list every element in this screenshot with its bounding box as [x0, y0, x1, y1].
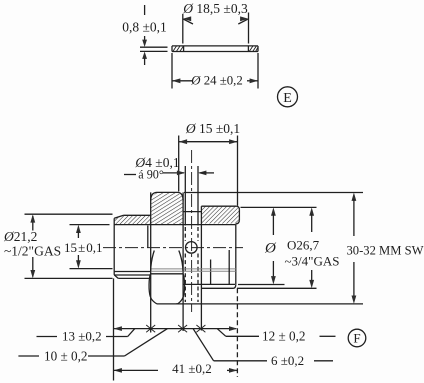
- left thread hatch band: [114, 216, 150, 225]
- body bottom-left chamfer: [114, 275, 118, 279]
- left bottom extension line: [113, 278, 115, 380]
- label 10 dash: [18, 355, 39, 357]
- hidden bore lines: [151, 269, 236, 271]
- hex boss top edge: [157, 191, 179, 193]
- svg-text:30-32 MM SW: 30-32 MM SW: [347, 244, 424, 258]
- svg-text:~1/2"GAS: ~1/2"GAS: [4, 244, 61, 259]
- washer thickness extension lines: [140, 47, 168, 51]
- washer dim 0,8 top stub: [144, 5, 146, 15]
- dim Ø vertical line: [271, 207, 276, 284]
- right thread lower chamfer: [236, 220, 240, 224]
- right thread top chamfer: [236, 206, 239, 209]
- washer right hatch: [249, 46, 258, 52]
- cross hole edge lines: [185, 166, 198, 226]
- hex belly right edge: [178, 274, 185, 304]
- left thread bottom edge: [118, 277, 151, 279]
- label 10 leader: [88, 329, 168, 356]
- hex throat curve left: [151, 251, 155, 272]
- neck top edge: [183, 211, 201, 213]
- root bottom extension line: [238, 284, 285, 286]
- right end face: [235, 224, 237, 284]
- hex boss corner arcs: [151, 192, 183, 200]
- dim 15 extension bottom: [70, 268, 113, 270]
- body left face: [113, 218, 115, 275]
- label 6 leader: [193, 329, 267, 361]
- svg-text:Ø21,2: Ø21,2: [3, 229, 37, 244]
- left thread bottom line2: [114, 274, 151, 276]
- dashed right face extension: [236, 288, 238, 377]
- cross hole hidden lines: [185, 227, 198, 302]
- svg-text:12 ± 0,2: 12 ± 0,2: [262, 329, 306, 344]
- label 13 dash: [37, 336, 58, 338]
- right thread start edge: [200, 206, 202, 330]
- right thread hatch band: [202, 206, 239, 223]
- chain tick X 201: [196, 325, 205, 332]
- hex bottom edge: [157, 303, 178, 305]
- vertical centerline: [191, 150, 193, 312]
- body top-left chamfer: [114, 215, 123, 218]
- hex boss right edge: [182, 192, 184, 331]
- washer outline: [172, 46, 258, 52]
- hex corner line left: [147, 226, 149, 248]
- svg-text:13 ±0,2: 13 ±0,2: [62, 329, 102, 344]
- cross hole circle: [186, 242, 198, 254]
- svg-text:6 ±0,2: 6 ±0,2: [271, 353, 304, 368]
- hex chamfer line: [151, 273, 183, 275]
- hex throat curve right: [179, 251, 183, 272]
- hex boss left edge: [150, 192, 152, 332]
- svg-text:41 ±0,2: 41 ±0,2: [172, 361, 212, 376]
- svg-text:O26,7: O26,7: [287, 238, 320, 253]
- label 12 dash: [320, 335, 336, 337]
- dim Ø21,2 extension bottom: [25, 277, 113, 279]
- svg-text:F: F: [353, 331, 360, 346]
- dim Ø4 arrows: [163, 171, 214, 176]
- horizontal centerline: [103, 247, 243, 249]
- dim Ø21,2 extension top: [25, 213, 113, 215]
- dim Ø4 leader dash: [124, 174, 136, 176]
- right thread top edge: [201, 205, 236, 207]
- svg-text:15 ± 0,1: 15 ± 0,1: [64, 240, 103, 255]
- dim Ø15 line and arrows: [179, 139, 238, 144]
- dim 15 arrows: [76, 225, 81, 269]
- chain tick X 151: [146, 325, 155, 332]
- svg-text:á 90°: á 90°: [138, 168, 164, 182]
- right end chamfer edge: [228, 250, 230, 284]
- label 12 leader: [217, 329, 259, 337]
- svg-text:10 ± 0,2: 10 ± 0,2: [44, 349, 88, 364]
- washer thickness arrow up: [142, 52, 147, 66]
- svg-text:Ø 15 ±0,1: Ø 15 ±0,1: [185, 121, 240, 136]
- dim Ø21,2 line and arrows: [30, 214, 35, 278]
- dim Ø15 extension lines: [179, 136, 238, 206]
- label 6 dash: [314, 360, 333, 362]
- dim 41 line left: [114, 368, 159, 373]
- washer bore edges: [184, 46, 249, 52]
- svg-text:0,8 ±0,1: 0,8 ±0,1: [122, 20, 167, 35]
- chain tick X 183: [178, 325, 187, 332]
- hex bottom extension line: [176, 303, 363, 305]
- right thread bottom root: [183, 283, 235, 285]
- label 13 leader: [106, 329, 135, 337]
- svg-text:Ø 18,5 ±0,3: Ø 18,5 ±0,3: [182, 1, 248, 16]
- right thread crest edge: [238, 210, 240, 221]
- right end bottom chamfer: [233, 285, 236, 289]
- hex belly left edge: [149, 274, 157, 304]
- dim 30-32 vertical line: [352, 193, 357, 304]
- dim O26,7 vertical line: [309, 207, 314, 288]
- washer thickness arrow down: [142, 36, 147, 47]
- dim Ø24 line and arrows: [172, 78, 258, 83]
- dim 41 line right: [227, 368, 237, 373]
- crest bottom extension line: [237, 287, 317, 289]
- svg-text:~3/4"GAS: ~3/4"GAS: [285, 254, 340, 269]
- hex boss hatch: [151, 193, 183, 225]
- bore line: [114, 224, 236, 226]
- dim Ø24 extension lines: [172, 53, 258, 89]
- dim Ø18,5 arrows: [183, 16, 249, 24]
- thread runout edge: [210, 260, 212, 285]
- left thread top edge: [124, 214, 151, 216]
- dim 15 extension top: [70, 224, 110, 226]
- dim Ø18,5 extension lines: [183, 13, 249, 44]
- hex top extension line: [184, 192, 363, 194]
- svg-text:Ø: Ø: [264, 241, 277, 257]
- balloon F: [348, 329, 366, 347]
- svg-text:E: E: [283, 91, 292, 106]
- washer left hatch: [173, 46, 184, 52]
- svg-text:Ø 24 ±0,2: Ø 24 ±0,2: [190, 74, 242, 88]
- chain dimension line: [114, 326, 238, 331]
- left thread bottom root: [114, 271, 151, 273]
- right thread top extension line: [241, 206, 317, 208]
- balloon E: [278, 87, 298, 107]
- right thread bottom crest: [201, 287, 233, 289]
